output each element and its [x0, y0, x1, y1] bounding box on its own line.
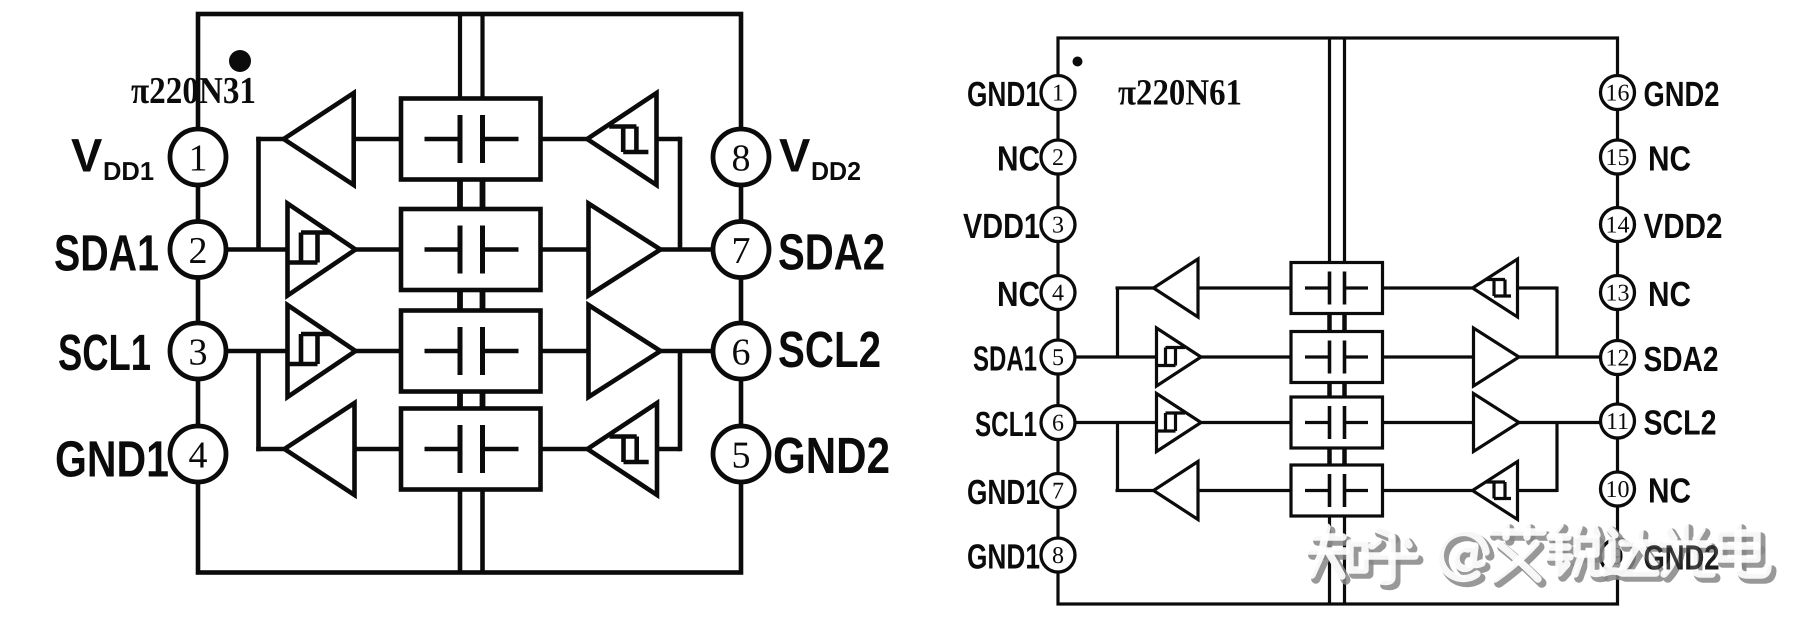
- pin 7 (U2): [1041, 474, 1075, 508]
- svg-text:SCL1: SCL1: [58, 324, 151, 381]
- buffer U1-B4 (output, points left): [285, 403, 355, 495]
- svg-text:6: 6: [732, 332, 751, 374]
- svg-text:14: 14: [1606, 213, 1630, 239]
- pin 1 (U2): [1041, 76, 1075, 110]
- wire: junction vertical x680 (SCL2 net to ch4 in): [678, 351, 683, 451]
- wire: cap C3 to buffer B3: [541, 349, 589, 354]
- wire: junction vertical x258 (ch1 out to SDA1 net): [256, 137, 261, 250]
- svg-text:1: 1: [1052, 81, 1064, 107]
- svg-text:DD2: DD2: [811, 156, 861, 186]
- svg-text:5: 5: [1052, 345, 1064, 371]
- wire: schmitt A3 to cap C3: [356, 349, 402, 354]
- svg-text:GND2: GND2: [1644, 75, 1720, 114]
- wire: pin2 to schmitt A2: [224, 247, 288, 252]
- wire: buffer B3 to pin 6: [661, 349, 716, 354]
- wire: pin3 to schmitt A3: [224, 349, 288, 354]
- pin 6 (U1): [713, 323, 769, 379]
- wire: schmitt A1 input from node x680: [657, 137, 681, 142]
- wire: cap C4 to schmitt A4: [541, 447, 588, 452]
- svg-text:5: 5: [732, 435, 751, 477]
- svg-text:GND1: GND1: [967, 473, 1040, 512]
- pin 11 (U2): [1601, 404, 1635, 438]
- svg-text:π220N31: π220N31: [131, 70, 256, 112]
- wire: cap to schmitt (U2ch1): [1383, 286, 1473, 289]
- svg-text:SDA2: SDA2: [1644, 340, 1719, 379]
- wire: ch4 output from node x258: [256, 447, 284, 452]
- pin 5 (U1): [713, 426, 769, 482]
- svg-text:VDD1: VDD1: [963, 207, 1040, 246]
- svg-text:1: 1: [189, 138, 208, 180]
- isolation barrier line A (U2): [1328, 38, 1331, 604]
- svg-text:V: V: [71, 129, 103, 182]
- svg-text:3: 3: [189, 332, 208, 374]
- pin 8 (U2): [1041, 538, 1075, 572]
- svg-text:GND2: GND2: [1644, 539, 1720, 578]
- pin label VDD1: [71, 129, 154, 187]
- svg-text:13: 13: [1606, 281, 1630, 307]
- wire: junction vertical x680 (SDA2 net to ch1 in): [678, 137, 683, 250]
- wire: buffer to pin (U2ch2): [1519, 355, 1603, 358]
- wire: pin to schmitt (U2ch3): [1073, 421, 1157, 424]
- wire: cap to buffer (U2ch3): [1383, 421, 1474, 424]
- svg-text:SCL1: SCL1: [975, 405, 1037, 444]
- svg-text:V: V: [779, 129, 811, 182]
- isolation capacitor U2ch4-C: [1291, 465, 1383, 516]
- svg-text:GND1: GND1: [967, 538, 1040, 577]
- schmitt trigger A3 (SCL1 input, points right): [288, 305, 356, 397]
- wire: buffer to pin (U2ch3): [1519, 421, 1603, 424]
- schmitt trigger A1 (input, points left): [587, 93, 656, 185]
- svg-text:11: 11: [1606, 409, 1629, 435]
- pin 6 (U2): [1041, 406, 1075, 440]
- isolation capacitor C4 (barrier cell): [401, 409, 541, 490]
- isolation capacitor U2ch1-C: [1291, 263, 1383, 314]
- isolation barrier line B (U1): [480, 14, 484, 573]
- wire: cap C2 to buffer B2: [541, 247, 589, 252]
- svg-text:GND1: GND1: [55, 431, 169, 488]
- pin-1 orientation dot (U2): [1073, 57, 1083, 67]
- isolation capacitor C2 (barrier cell): [401, 209, 541, 290]
- wire: buffer B2 to pin 7: [661, 247, 716, 252]
- wire: junction vertical x1117 (SDA1 side): [1116, 287, 1119, 358]
- svg-text:SCL2: SCL2: [778, 321, 881, 378]
- wire: buffer B1 input to cap box: [354, 137, 401, 142]
- wire: ch1 output to node at x258: [256, 137, 284, 142]
- wire: junction vertical x1557 (SCL2 side): [1555, 423, 1558, 493]
- svg-text:SDA1: SDA1: [54, 225, 159, 282]
- svg-text:6: 6: [1052, 411, 1064, 437]
- svg-text:7: 7: [1052, 479, 1064, 505]
- svg-text:NC: NC: [997, 140, 1040, 179]
- schmitt trigger U2ch4-A (points left): [1473, 462, 1518, 520]
- pin 3 (U1): [170, 323, 226, 379]
- wire: junction vertical x1557 (SDA2 side): [1555, 287, 1558, 358]
- isolation barrier line B (U2): [1343, 38, 1346, 604]
- wire: schmitt A2 to cap C2: [356, 247, 402, 252]
- wire: buffer B4 input to cap C4: [355, 447, 402, 452]
- schmitt trigger U2ch2-A (points right): [1157, 328, 1202, 386]
- pin 4 (U1): [170, 426, 226, 482]
- isolation capacitor C3 (barrier cell): [401, 311, 541, 392]
- wire: U2ch1 output to node x1117: [1116, 286, 1154, 289]
- svg-text:NC: NC: [997, 275, 1040, 314]
- svg-text:DD1: DD1: [103, 156, 154, 186]
- svg-text:VDD2: VDD2: [1644, 207, 1723, 246]
- svg-text:NC: NC: [1648, 140, 1691, 179]
- svg-text:SDA2: SDA2: [778, 224, 885, 281]
- pin 13 (U2): [1601, 276, 1635, 310]
- pin 2 (U2): [1041, 140, 1075, 174]
- wire: schmitt input from node x1557 (U2ch4): [1518, 489, 1558, 492]
- buffer U1-B1 (output, points left): [284, 93, 354, 185]
- svg-text:GND1: GND1: [967, 75, 1040, 114]
- wire: buffer to cap (U2ch1): [1199, 286, 1292, 289]
- schmitt trigger A4 (input, points left): [588, 403, 658, 495]
- svg-text:15: 15: [1606, 145, 1630, 171]
- schmitt trigger A2 (SDA1 input, points right): [288, 204, 356, 296]
- buffer U2ch2-B (points right): [1474, 328, 1520, 386]
- pin 7 (U1): [713, 222, 769, 278]
- pin 2 (U1): [170, 222, 226, 278]
- svg-text:8: 8: [732, 138, 751, 180]
- wire: cap C1 to schmitt A1: [541, 137, 588, 142]
- isolation barrier line A (U1): [458, 14, 462, 573]
- pin 8 (U1): [713, 129, 769, 185]
- isolation capacitor U2ch2-C: [1291, 332, 1383, 383]
- svg-text:4: 4: [189, 435, 208, 477]
- pin 14 (U2): [1601, 208, 1635, 242]
- buffer U2ch4-B (points left): [1154, 462, 1199, 520]
- pin 16 (U2): [1601, 76, 1635, 110]
- buffer U1-B2 (SDA2 output, points right): [589, 204, 661, 296]
- buffer U2ch1-B (points left): [1154, 259, 1199, 317]
- schmitt trigger U2ch3-A (points right): [1157, 394, 1202, 452]
- svg-text:8: 8: [1052, 543, 1064, 569]
- wire: schmitt to cap (U2ch2): [1200, 355, 1291, 358]
- svg-text:2: 2: [189, 230, 208, 272]
- isolation capacitor U2ch3-C: [1291, 397, 1383, 448]
- svg-text:NC: NC: [1648, 275, 1691, 314]
- svg-text:10: 10: [1606, 477, 1630, 503]
- buffer U2ch3-B (points right): [1474, 394, 1520, 452]
- svg-text:NC: NC: [1648, 472, 1691, 511]
- pin 5 (U2): [1041, 340, 1075, 374]
- svg-text:π220N61: π220N61: [1118, 73, 1242, 114]
- wire: cap to schmitt (U2ch4): [1383, 489, 1473, 492]
- svg-text:4: 4: [1052, 281, 1064, 307]
- svg-text:7: 7: [732, 230, 751, 272]
- pin label VDD2: [779, 129, 861, 187]
- pin 9 (U2): [1601, 539, 1635, 573]
- wire: U2ch4 output to node x1117: [1116, 489, 1154, 492]
- pin-1 orientation dot (U1): [229, 50, 251, 72]
- isolation capacitor C1 (barrier cell): [401, 99, 541, 180]
- pin 4 (U2): [1041, 276, 1075, 310]
- pin 15 (U2): [1601, 140, 1635, 174]
- watermark: zhihu logo + text (approximated glyph strokes): [1309, 525, 1772, 586]
- wire: cap to buffer (U2ch2): [1383, 355, 1474, 358]
- IC package outline U1 (pi220N31): [198, 14, 741, 573]
- schmitt trigger U2ch1-A (points left): [1473, 259, 1518, 317]
- wire: junction vertical x258 (SCL1 net to ch4 out): [256, 351, 261, 451]
- svg-text:16: 16: [1606, 81, 1630, 107]
- wire: pin to schmitt (U2ch2): [1073, 355, 1157, 358]
- wire: junction vertical x1117 (SCL1 side): [1116, 423, 1119, 493]
- wire: schmitt A4 input from node x680: [657, 447, 680, 452]
- svg-text:2: 2: [1052, 145, 1064, 171]
- pin 12 (U2): [1601, 341, 1635, 375]
- svg-text:12: 12: [1606, 346, 1630, 372]
- wire: schmitt input from node x1557 (U2ch1): [1518, 286, 1558, 289]
- pin 3 (U2): [1041, 208, 1075, 242]
- pin 10 (U2): [1601, 472, 1635, 506]
- wire: buffer to cap (U2ch4): [1199, 489, 1292, 492]
- pin 1 (U1): [170, 129, 226, 185]
- svg-text:SDA1: SDA1: [973, 340, 1037, 379]
- svg-text:SCL2: SCL2: [1644, 404, 1717, 443]
- wire: schmitt to cap (U2ch3): [1200, 421, 1291, 424]
- svg-text:3: 3: [1052, 213, 1064, 239]
- svg-text:GND2: GND2: [773, 427, 890, 484]
- IC package outline U2 (pi220N61): [1058, 38, 1618, 604]
- buffer U1-B3 (SCL2 output, points right): [589, 305, 661, 397]
